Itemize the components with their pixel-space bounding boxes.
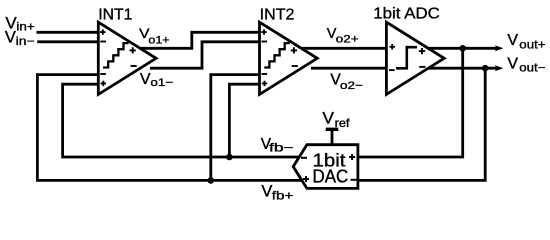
svg-text:INT2: INT2: [260, 7, 295, 24]
svg-text:1bit ADC: 1bit ADC: [373, 5, 440, 22]
svg-text:V: V: [261, 182, 272, 200]
svg-text:o1−: o1−: [150, 77, 173, 89]
svg-text:out+: out+: [519, 38, 545, 52]
svg-text:o2−: o2−: [340, 80, 363, 92]
svg-text:INT1: INT1: [98, 6, 132, 23]
svg-text:in−: in−: [16, 34, 35, 48]
svg-text:V: V: [5, 28, 16, 46]
svg-text:fb+: fb+: [272, 189, 294, 203]
svg-text:DAC: DAC: [313, 167, 349, 187]
svg-text:out−: out−: [519, 60, 545, 74]
svg-text:ref: ref: [335, 116, 351, 130]
svg-text:o1+: o1+: [148, 35, 169, 47]
svg-text:V: V: [507, 56, 518, 73]
svg-text:V: V: [507, 32, 518, 49]
svg-text:in+: in+: [16, 19, 34, 33]
svg-text:V: V: [140, 71, 151, 88]
svg-text:V: V: [322, 109, 334, 128]
svg-text:fb−: fb−: [269, 141, 294, 155]
svg-text:o2+: o2+: [336, 34, 359, 46]
